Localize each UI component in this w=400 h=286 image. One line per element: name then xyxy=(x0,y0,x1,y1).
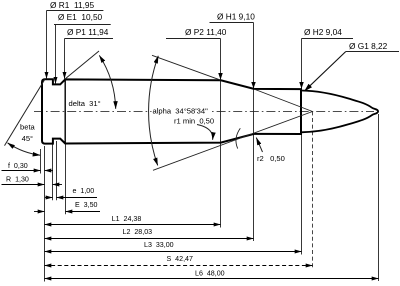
beta arc xyxy=(8,143,41,155)
extension line body-start E xyxy=(65,145,67,215)
r2 crossing arc xyxy=(236,128,240,148)
dimension E xyxy=(34,201,100,212)
svg-text:Ø P1 11,94: Ø P1 11,94 xyxy=(67,27,109,37)
label H2 xyxy=(299,27,353,89)
delta arc xyxy=(99,55,115,108)
alpha arc xyxy=(149,56,159,166)
dimension S xyxy=(45,255,313,266)
r1 leader xyxy=(197,125,213,140)
dimension f xyxy=(2,162,54,171)
svg-text:f 0,30: f 0,30 xyxy=(8,162,28,170)
svg-text:Ø R1 11,95: Ø R1 11,95 xyxy=(50,0,95,10)
dimension e xyxy=(45,187,97,197)
svg-text:Ø P2 11,40: Ø P2 11,40 xyxy=(185,27,227,37)
extension line L2 / H1 stem xyxy=(253,23,255,242)
svg-text:r2 0,50: r2 0,50 xyxy=(257,154,285,163)
svg-text:L3 33,00: L3 33,00 xyxy=(144,241,174,249)
svg-text:L2 28,03: L2 28,03 xyxy=(123,228,153,236)
extension line L3 / H2 stem xyxy=(301,39,303,255)
extension line rim-back C xyxy=(52,145,54,201)
dimension L1 xyxy=(45,215,221,224)
extension line S dashed xyxy=(312,111,314,267)
alpha vertex line lower xyxy=(153,112,313,171)
beta line xyxy=(5,79,45,145)
label E1 xyxy=(54,12,111,84)
dimension L3 xyxy=(45,241,302,252)
svg-text:Ø G1 8,22: Ø G1 8,22 xyxy=(349,41,388,51)
r2 leader xyxy=(256,138,262,152)
extension line head-face B xyxy=(44,146,46,282)
svg-text:45°: 45° xyxy=(22,134,33,143)
centerline xyxy=(34,110,374,112)
alpha label xyxy=(152,105,213,115)
cartridge case outline xyxy=(42,79,301,143)
label G1 xyxy=(304,41,399,91)
extension line L1 / P2 stem xyxy=(220,39,222,228)
svg-text:S 42,47: S 42,47 xyxy=(167,255,193,263)
bullet ogive xyxy=(301,91,378,133)
label P1 xyxy=(65,27,114,78)
svg-text:Ø H2 9,04: Ø H2 9,04 xyxy=(304,27,342,37)
svg-text:beta: beta xyxy=(20,123,36,132)
alpha upper extension line xyxy=(152,55,221,80)
svg-text:L6 48,00: L6 48,00 xyxy=(195,269,225,277)
r1 label xyxy=(173,116,218,125)
svg-text:e 1,00: e 1,00 xyxy=(73,187,95,195)
svg-text:r1 min 0,50: r1 min 0,50 xyxy=(174,116,214,125)
svg-text:E 3,50: E 3,50 xyxy=(75,201,98,209)
svg-text:delta 31°: delta 31° xyxy=(69,99,101,108)
label P2 xyxy=(166,27,227,80)
extension line groove-end D xyxy=(56,141,58,200)
dimension R xyxy=(2,175,63,184)
label H1 xyxy=(210,12,256,89)
label R1 xyxy=(47,0,104,79)
case body start edge xyxy=(64,80,66,144)
delta bevel line xyxy=(65,51,99,79)
dimension L2 xyxy=(45,228,254,238)
extension line f A xyxy=(40,149,42,174)
extension line L6 xyxy=(378,114,380,281)
svg-text:alpha 34°58'34": alpha 34°58'34" xyxy=(153,106,209,115)
svg-text:R 1,30: R 1,30 xyxy=(6,175,29,183)
svg-text:L1 24,38: L1 24,38 xyxy=(112,215,142,223)
alpha vertex line upper xyxy=(254,89,313,112)
dimension L6 xyxy=(45,269,379,278)
svg-text:Ø E1 10,50: Ø E1 10,50 xyxy=(58,12,103,22)
svg-text:Ø H1 9,10: Ø H1 9,10 xyxy=(217,12,255,22)
